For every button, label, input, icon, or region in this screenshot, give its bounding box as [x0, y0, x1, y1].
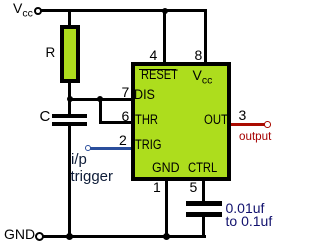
GND terminal	[35, 232, 44, 241]
IC label RESET pin4	[141, 68, 178, 82]
capacitor C bottom plate	[52, 122, 87, 127]
wire pin5 CTRL down	[202, 181, 205, 202]
IC label THR pin6	[135, 113, 158, 127]
resistor R	[60, 25, 80, 83]
pin number 6	[122, 109, 130, 123]
output terminal (red)	[264, 121, 271, 128]
IC label TRIG pin2	[135, 138, 161, 152]
node GND label	[4, 227, 35, 241]
wire capacitor control to ground rail	[202, 217, 205, 239]
node junction top rail to pin4	[162, 8, 168, 14]
wire TRIG pin2 (blue)	[90, 147, 131, 150]
capacitor control bottom plate	[186, 212, 222, 217]
IC label GND pin1	[152, 161, 180, 175]
wire resistor to junction	[68, 83, 71, 114]
pin number 4	[150, 48, 158, 62]
pin number 8	[195, 48, 203, 62]
capacitor control value label line 2	[226, 214, 273, 228]
node junction DIS/THR	[97, 96, 103, 102]
Vcc terminal	[34, 7, 42, 15]
IC label DIS pin7	[134, 88, 155, 102]
capacitor C designator	[40, 109, 51, 124]
IC 555 timer body	[131, 62, 231, 181]
wire ground rail	[43, 235, 206, 238]
node junction GND rail cap C	[66, 233, 73, 240]
IC label CTRL pin5	[188, 161, 217, 175]
wire OUT pin3 (red)	[231, 123, 265, 126]
wire Vcc rail down to resistor	[68, 11, 71, 25]
wire THR pin6	[99, 121, 132, 124]
pin number 2	[119, 133, 127, 147]
wire DIS pin7	[68, 98, 131, 101]
node label i/p	[71, 152, 87, 167]
IC label OUT pin3	[204, 113, 228, 127]
wire pin1 GND down	[165, 181, 168, 238]
wire pin4 RESET	[163, 11, 166, 62]
trigger input terminal (blue)	[85, 145, 91, 151]
node junction below resistor	[67, 96, 73, 102]
IC label RESET overline	[139, 69, 176, 70]
node output label	[239, 130, 271, 142]
wire top rail Vcc	[41, 9, 207, 12]
capacitor control top plate	[186, 201, 222, 206]
pin number 1	[153, 180, 161, 194]
node junction GND rail pin1	[163, 233, 170, 240]
resistor R designator	[46, 46, 56, 60]
node Vcc label	[13, 1, 33, 19]
IC label Vcc pin8	[193, 68, 213, 86]
pin number 7	[122, 85, 130, 99]
wire junction down to THR level	[99, 99, 102, 124]
pin number 5	[190, 180, 198, 194]
wire capacitor C to ground rail	[68, 126, 71, 238]
wire pin8 Vcc	[204, 9, 207, 62]
capacitor C top plate	[52, 114, 87, 119]
capacitor control value label line 1	[226, 201, 265, 215]
pin number 3	[239, 108, 247, 122]
node label trigger	[71, 169, 114, 184]
